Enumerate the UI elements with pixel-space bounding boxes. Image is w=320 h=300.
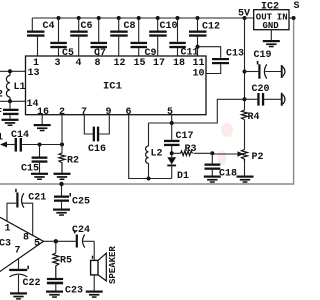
wire pin16 to ground [41,115,43,124]
capacitor C8 [110,18,135,56]
jack J2 [281,93,285,106]
svg-text:C17: C17 [176,131,194,142]
svg-text:C19: C19 [254,50,272,61]
node R3/C18/P2 [210,151,214,155]
node rail junction C5 [57,16,61,20]
capacitor C22 [9,258,40,293]
svg-text:IC2: IC2 [261,2,279,13]
capacitor C9 [131,18,157,59]
svg-text:SPEAKER: SPEAKER [108,246,118,284]
node rail junction C6 [77,16,81,20]
ground speaker [86,291,103,298]
node pin5 [170,121,174,125]
svg-text:IC1: IC1 [103,81,122,93]
svg-text:C24: C24 [72,225,90,236]
capacitor C16 between pins 7 and 9 [84,115,109,155]
svg-text:C23: C23 [65,286,83,297]
capacitor C7 [91,18,108,59]
svg-text:5V: 5V [238,9,250,20]
svg-text:C16: C16 [88,144,106,155]
svg-text:1: 1 [5,224,11,235]
node C20 tap [243,97,247,101]
svg-text:L1: L1 [14,82,26,93]
node rail junction 5V drop [243,16,247,20]
capacitor C24 [72,225,94,248]
wire IC2 out to border [289,17,294,19]
capacitor C23 [47,278,83,297]
node C19 tap [243,70,247,74]
node lower rail tap [59,182,63,186]
capacitor C14 [6,130,62,152]
svg-text:C14: C14 [11,130,29,141]
svg-text:C5: C5 [62,48,74,59]
svg-text:C25: C25 [72,197,90,208]
node C15 tap [38,143,42,147]
capacitor C10 [149,18,177,56]
capacitor C21 feedback [7,189,46,236]
svg-text:7: 7 [15,246,21,257]
wire pin5 node [149,99,245,123]
capacitor C19 polarized [245,50,282,79]
wire pin2 down [61,115,63,145]
wire R4 to P2 [244,120,246,150]
svg-text:R4: R4 [248,112,260,123]
svg-text:10: 10 [193,69,205,80]
op-amp IC3 triangle [0,214,44,276]
ground P2 [237,176,254,183]
node L2 bottom [147,177,151,181]
node L1 top [8,69,12,73]
svg-text:3: 3 [55,58,61,69]
capacitor C6 [70,18,92,56]
wire 5V drop right column [244,18,246,110]
capacitor C15 [21,145,47,175]
svg-text:C22: C22 [23,278,41,289]
svg-text:F: F [0,108,2,119]
capacitor C20 [245,84,282,106]
node rail junction C11 [176,16,180,20]
node pin2/R2 [60,143,64,147]
ground L1 cap [2,119,19,126]
capacitor C13 [198,47,245,74]
svg-text:R5: R5 [60,256,72,267]
node rail junction C8 [117,16,121,20]
svg-text:C12: C12 [202,22,220,33]
resistor R5 [53,241,72,278]
svg-text:R3: R3 [185,144,197,155]
svg-text:C13: C13 [226,49,244,60]
ground pin16 [34,124,51,131]
svg-text:C8: C8 [124,21,136,32]
ground C15 [31,173,48,180]
node C17/D1/R3 [170,151,174,155]
svg-text:16: 16 [37,107,49,118]
capacitor C17 [164,123,194,157]
svg-text:9: 9 [106,107,112,118]
resistor R2 [59,145,79,173]
svg-text:18: 18 [173,58,185,69]
regulator IC2 box [254,10,289,30]
capacitor C12 [189,18,220,56]
ground IC2 [263,40,280,47]
capacitor C4 [27,18,55,56]
svg-text:8: 8 [23,233,29,244]
capacitor C11 [169,18,198,59]
border frame right+bottom of upper schematic [0,18,294,185]
svg-text:S: S [294,1,300,12]
IC2 ground stem [270,30,272,40]
node L1 bottom [8,99,12,103]
svg-text:8: 8 [95,58,101,69]
svg-text:C10: C10 [160,21,178,32]
inductor L2 [146,123,163,179]
node rail junction C10 [156,16,160,20]
ground R2 [54,173,71,180]
wire opamp output [44,240,76,242]
svg-text:L2: L2 [151,149,163,160]
svg-text:4: 4 [76,58,82,69]
capacitor C25 [54,184,90,209]
node rail to border [292,16,296,20]
svg-text:C21: C21 [28,193,46,204]
wire pin6 down to bottom rail [129,115,172,179]
pink smudge 1 [221,123,233,137]
svg-text:P2: P2 [252,152,264,163]
node output [54,239,58,243]
svg-text:2: 2 [0,90,3,101]
jack J1 [281,65,285,78]
svg-text:D1: D1 [177,171,189,182]
svg-text:5: 5 [34,239,40,250]
capacitor C5 [50,18,74,59]
node rail junction C7 [97,16,101,20]
svg-text:R2: R2 [67,156,79,167]
svg-text:C6: C6 [81,21,93,32]
ground C18 [204,176,221,183]
svg-text:1: 1 [0,133,3,144]
wire pin14 stub [0,100,26,102]
svg-text:C18: C18 [219,169,237,180]
inductor L1 [6,71,25,101]
ground C22 [10,292,27,299]
ground C25 [53,209,70,216]
svg-text:IC3: IC3 [0,239,11,250]
svg-text:GND: GND [263,21,280,31]
potentiometer P2 [212,150,263,164]
svg-text:17: 17 [153,58,165,69]
ground C23 [46,291,63,298]
svg-text:C11: C11 [181,48,199,59]
node rail junction C12 [196,16,200,20]
node C12/C13 tap [196,45,200,49]
wire pin13 stub [0,70,26,72]
wire 5V supply rail [32,17,253,19]
speaker SP1 [91,241,107,290]
diode D1 [167,157,189,182]
svg-text:11: 11 [193,58,205,69]
wiper arrow at left edge [0,142,7,148]
IC1 body [26,56,207,115]
capacitor C18 [205,153,238,179]
node rail junction C9 [137,16,141,20]
capacitor at L1 (label cropped) [0,101,19,118]
resistor R4 [242,110,260,123]
resistor R3 [172,144,213,156]
wire P2 to ground [244,162,246,176]
svg-text:13: 13 [28,68,40,79]
svg-text:12: 12 [114,58,126,69]
svg-text:15: 15 [134,58,146,69]
svg-text:C20: C20 [252,84,270,95]
pink smudge 2 [218,151,227,165]
svg-text:C4: C4 [43,21,55,32]
